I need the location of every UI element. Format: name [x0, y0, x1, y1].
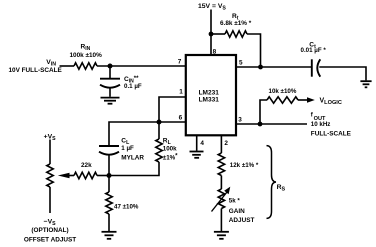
wire VIN input line to pin 7 [60, 65, 75, 67]
wire 47 top stub [108, 176, 110, 193]
svg-text:RIN: RIN [81, 44, 91, 53]
node CIN junction [108, 64, 113, 69]
wire Rt left segment [211, 33, 225, 35]
svg-text:6: 6 [179, 114, 183, 121]
svg-text:GAIN: GAIN [229, 208, 245, 215]
wire pot to -VS [49, 187, 51, 213]
capacitor CIN 0.1uF [100, 79, 120, 88]
wire pin 4 to ground [196, 135, 198, 151]
svg-text:1 µF: 1 µF [121, 145, 134, 152]
wire 5k to ground [220, 209, 222, 232]
svg-text:0.01 µF *: 0.01 µF * [301, 47, 327, 54]
brace RS [267, 146, 277, 219]
wire 12k to 5k [220, 176, 222, 190]
arrow to VLOGIC [307, 97, 315, 103]
wire 22k to junction [97, 175, 109, 177]
wire RL top stub [158, 122, 160, 139]
capacitor CL 1uF [99, 146, 119, 155]
capacitor Ct 0.01uF [312, 59, 321, 76]
ground below CIN [101, 98, 120, 104]
ground below 5k [214, 232, 229, 239]
ground right of Ct [360, 81, 371, 87]
svg-text:2: 2 [224, 140, 228, 147]
node VS/Rt junction [209, 32, 214, 37]
wire CIN stem [109, 66, 111, 78]
svg-text:−VS: −VS [44, 218, 57, 227]
potentiometer offset adjust [47, 164, 53, 187]
arrow wiper into pot [58, 173, 70, 178]
op-amp U1 LM231/LM331 IC body [186, 55, 236, 135]
svg-text:0.1 µF: 0.1 µF [124, 83, 142, 90]
wire 10k to VLOGIC arrow [298, 99, 308, 101]
svg-text:5: 5 [239, 60, 243, 67]
svg-text:47 ±10%: 47 ±10% [114, 204, 139, 211]
wire 10k drop to pin 3 [260, 100, 267, 124]
svg-text:10V FULL-SCALE: 10V FULL-SCALE [9, 67, 63, 74]
resistor RL 100k [156, 139, 162, 162]
resistor RIN 100k [74, 63, 97, 69]
wire +VS to pot [49, 140, 51, 165]
wire CL bottom stem [108, 155, 110, 176]
svg-text:ADJUST: ADJUST [229, 217, 255, 224]
wire pin 3 output line [236, 123, 307, 125]
svg-text:MYLAR: MYLAR [121, 154, 144, 161]
node CL/22k/47 junction [107, 173, 112, 178]
resistor Rt 6.8k [225, 31, 247, 37]
node pin5/Rt junction [258, 65, 263, 70]
svg-text:±1%*: ±1%* [163, 152, 178, 161]
svg-text:5k *: 5k * [229, 198, 241, 205]
resistor 47 ohm [106, 192, 112, 214]
resistor 22k offset [74, 172, 97, 178]
node pin1/pin6/RL junction [157, 120, 162, 125]
wire 47 to ground [108, 214, 110, 231]
trimmer arrow [212, 187, 231, 212]
svg-text:LM231: LM231 [199, 90, 220, 97]
svg-text:VLOGIC: VLOGIC [320, 97, 342, 106]
svg-text:100k ±10%: 100k ±10% [70, 52, 103, 59]
svg-text:(OPTIONAL): (OPTIONAL) [31, 227, 68, 234]
svg-text:4: 4 [200, 140, 204, 147]
svg-text:LM331: LM331 [199, 97, 220, 104]
wire 22k wiper arrow shaft [69, 175, 75, 177]
wire RIN to pin 7 [97, 65, 186, 67]
svg-text:OFFSET ADJUST: OFFSET ADJUST [24, 236, 76, 243]
svg-text:12k ±1% *: 12k ±1% * [230, 162, 259, 169]
wire pin 6 line [109, 122, 186, 146]
svg-text:10 kHz: 10 kHz [311, 121, 331, 128]
wire Ct to ground [319, 67, 366, 80]
ground below pin 4 [190, 152, 204, 158]
wire VS vertical into pin 8 [210, 10, 212, 56]
wire RL bottom to CL node [109, 162, 159, 176]
wire pin 2 stub [220, 135, 222, 153]
resistor 12k [218, 153, 224, 176]
svg-text:8: 8 [213, 49, 217, 56]
resistor 10k pull-up [267, 97, 298, 103]
svg-text:7: 7 [178, 59, 182, 66]
svg-text:RS: RS [277, 184, 286, 193]
svg-text:22k: 22k [81, 162, 92, 169]
svg-text:100k: 100k [163, 145, 177, 152]
svg-text:1: 1 [179, 89, 183, 96]
trimmer 5k gain adjust [218, 189, 224, 209]
svg-text:6.8k ±1% *: 6.8k ±1% * [220, 20, 252, 27]
ground below 47 [102, 232, 117, 239]
svg-text:15V = VS: 15V = VS [198, 3, 226, 12]
wire pin 5 to Ct [236, 66, 311, 68]
wire Rt right segment down to pin 5 line [247, 34, 261, 67]
svg-text:3: 3 [238, 116, 242, 123]
svg-text:FULL-SCALE: FULL-SCALE [311, 130, 352, 137]
wire pin 1 over and down [159, 97, 186, 122]
node pin3/10k junction [258, 122, 263, 127]
wire CIN to ground [109, 88, 111, 97]
svg-text:10k ±10%: 10k ±10% [269, 88, 297, 95]
